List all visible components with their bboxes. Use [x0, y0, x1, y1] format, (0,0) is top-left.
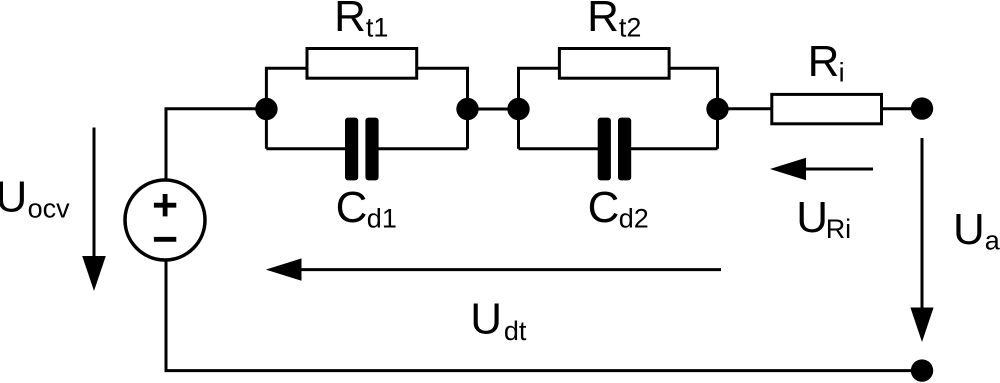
svg-text:t1: t1: [366, 13, 389, 43]
svg-text:dt: dt: [504, 316, 527, 346]
wire: RC1 bottom branch right lead from C_d1: [378, 147, 468, 150]
svg-text:i: i: [839, 58, 845, 88]
arrow U_ocv (downward, left of source) stem: [93, 128, 96, 258]
voltage source plus sign: [154, 194, 176, 216]
svg-text:t2: t2: [619, 13, 642, 43]
svg-text:d1: d1: [367, 204, 397, 234]
arrow U_Ri head: [770, 158, 806, 181]
voltage source U_ocv circle: [125, 180, 205, 260]
node dot: RC1 left: [255, 98, 277, 120]
arrow U_a head: [910, 308, 933, 343]
wire: RC2 right node to R_i left lead: [718, 107, 772, 110]
arrow U_dt head: [266, 258, 302, 280]
wire: R_t2 right lead and RC2 right rail: [669, 68, 717, 149]
svg-text:U: U: [953, 205, 985, 254]
svg-text:Ri: Ri: [826, 214, 852, 244]
svg-text:ocv: ocv: [28, 194, 71, 224]
svg-text:R: R: [808, 37, 840, 86]
svg-text:U: U: [796, 193, 828, 242]
svg-text:C: C: [336, 183, 368, 232]
arrow U_Ri (leftward, above R_i region) stem: [804, 168, 873, 171]
node dot: RC1 right: [456, 98, 478, 120]
svg-text:R: R: [587, 0, 619, 41]
resistor R_i box: [772, 94, 882, 123]
arrow U_dt (long leftward) stem: [299, 268, 721, 271]
resistor R_t1 box: [307, 49, 417, 79]
capacitor C_d1 right plate: [365, 118, 378, 181]
arrow U_ocv head: [82, 256, 106, 291]
wire: source bottom terminal down and bottom return wire to output node: [166, 261, 922, 371]
svg-text:R: R: [334, 0, 366, 41]
node dot: RC2 right: [706, 98, 728, 120]
wire: RC1 left rail and top branch to R_t1: [266, 68, 307, 149]
node dot: RC2 left: [507, 98, 529, 120]
wire: RC2 bottom branch right lead from C_d2: [630, 147, 718, 150]
wire: left rail from top corner down to source top terminal: [166, 109, 266, 180]
capacitor C_d2 left plate: [598, 118, 611, 181]
svg-text:U: U: [0, 173, 27, 222]
wire: RC2 bottom branch left lead to C_d2: [519, 147, 599, 150]
capacitor C_d1 left plate: [345, 118, 358, 181]
svg-text:a: a: [985, 226, 1000, 256]
svg-text:C: C: [588, 183, 620, 232]
wire: connector between RC1 and RC2: [468, 108, 519, 111]
wire: RC1 bottom branch left lead to C_d1: [266, 147, 346, 150]
node dot: bottom right terminal: [911, 359, 933, 381]
arrow U_a (downward, right side) stem: [921, 138, 924, 309]
wire: R_t1 right lead and RC1 right rail: [417, 68, 468, 149]
node dot: output terminal top right: [911, 97, 933, 119]
wire: R_i right lead to output node: [882, 107, 923, 110]
wire: RC2 left rail and top branch to R_t2: [519, 68, 560, 149]
voltage source minus sign: [154, 237, 176, 242]
capacitor C_d2 right plate: [618, 118, 631, 181]
svg-text:d2: d2: [619, 204, 649, 234]
svg-text:U: U: [470, 295, 502, 344]
resistor R_t2 box: [559, 49, 669, 79]
